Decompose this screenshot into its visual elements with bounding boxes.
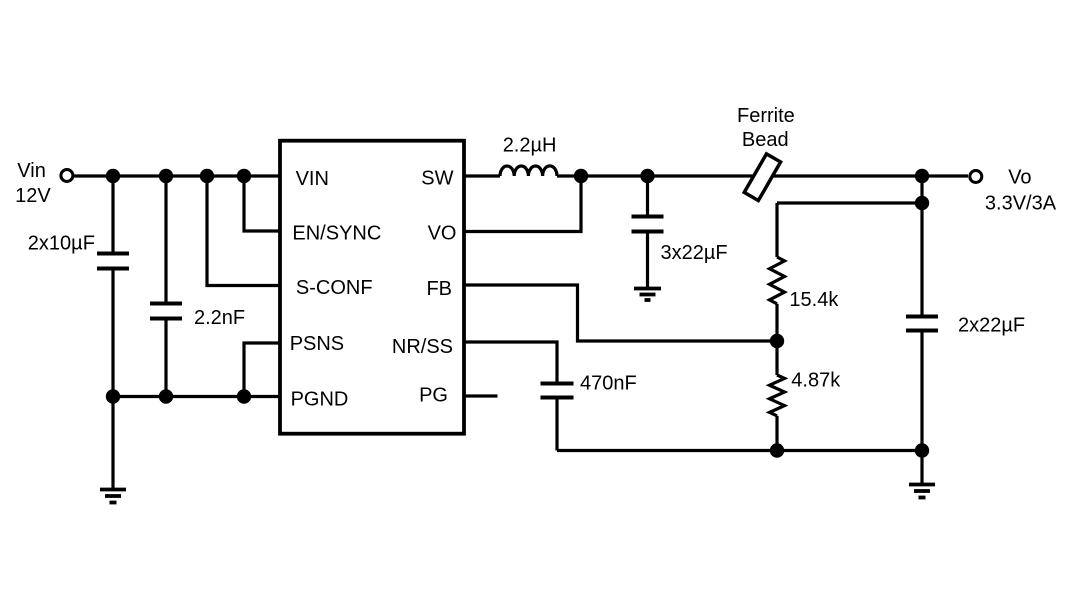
svg-text:470nF: 470nF bbox=[580, 373, 637, 395]
IC U1 bbox=[280, 141, 464, 434]
wire C2 bottom lead bbox=[164, 321, 167, 397]
svg-text:4.87k: 4.87k bbox=[791, 370, 841, 392]
wire bottom bus bbox=[557, 449, 922, 452]
capacitor 2x10uF bbox=[97, 254, 129, 269]
wire C1 bottom lead bbox=[111, 271, 114, 397]
svg-text:3x22µF: 3x22µF bbox=[661, 242, 728, 264]
wire FB bbox=[464, 285, 777, 341]
wire R1 top lead bbox=[775, 203, 778, 257]
wire PSNS bbox=[244, 343, 279, 397]
wire C1 top lead bbox=[111, 176, 114, 252]
inductor 2.2uH bbox=[500, 166, 557, 176]
capacitor 2.2nF bbox=[150, 304, 182, 319]
node feedback top junction bbox=[915, 196, 929, 210]
wire C5 top lead bbox=[920, 203, 923, 315]
wire PG stub bbox=[464, 394, 498, 397]
wire C2 top lead bbox=[164, 176, 167, 302]
capacitor 470nF bbox=[541, 384, 574, 398]
svg-text:Vo: Vo bbox=[1008, 167, 1031, 189]
svg-text:Bead: Bead bbox=[742, 129, 789, 151]
capacitor 3x22uF bbox=[632, 217, 664, 232]
wire to left ground bbox=[111, 397, 114, 490]
svg-text:15.4k: 15.4k bbox=[789, 289, 839, 311]
terminal Vin bbox=[61, 170, 73, 182]
wire C5 bottom lead bbox=[920, 333, 923, 451]
wire R2 top lead bbox=[775, 341, 778, 375]
node junction dots top rail bbox=[106, 169, 120, 183]
wire to right ground bbox=[920, 451, 923, 485]
svg-text:2.2µH: 2.2µH bbox=[503, 135, 557, 157]
ground left bbox=[100, 490, 126, 503]
wire SW to inductor bbox=[464, 174, 500, 177]
wire Vo junction drop bbox=[920, 176, 923, 203]
svg-text:PGND: PGND bbox=[291, 388, 349, 410]
wire S-CONF riser bbox=[207, 176, 279, 286]
capacitor 2x22uF bbox=[906, 317, 938, 331]
wire EN/SYNC riser bbox=[244, 176, 279, 231]
svg-text:2x22µF: 2x22µF bbox=[958, 315, 1025, 337]
wire Vin to VIN pin bbox=[74, 174, 279, 177]
svg-text:2x10µF: 2x10µF bbox=[28, 233, 95, 255]
ground middle bbox=[634, 289, 661, 301]
svg-text:PSNS: PSNS bbox=[290, 333, 344, 355]
node PGND bus junctions bbox=[106, 389, 120, 403]
resistor 15.4k bbox=[770, 257, 785, 304]
resistor 4.87k bbox=[770, 375, 785, 416]
node bottom bus junctions bbox=[770, 443, 784, 457]
svg-text:Vin: Vin bbox=[17, 160, 46, 182]
terminal Vo bbox=[970, 171, 982, 183]
svg-text:NR/SS: NR/SS bbox=[392, 336, 453, 358]
wire C3 to ground bbox=[646, 234, 649, 289]
wire y203 rail bbox=[777, 201, 922, 204]
node SW junction bbox=[574, 169, 588, 183]
wire C3 top lead bbox=[646, 176, 649, 215]
wire NR/SS to C4 bbox=[464, 342, 557, 382]
svg-text:VO: VO bbox=[428, 223, 457, 245]
svg-text:PG: PG bbox=[419, 385, 448, 407]
wire C4 bottom to bus bbox=[555, 400, 558, 451]
svg-text:2.2nF: 2.2nF bbox=[194, 307, 245, 329]
svg-text:FB: FB bbox=[426, 278, 452, 300]
svg-text:EN/SYNC: EN/SYNC bbox=[292, 223, 381, 245]
svg-text:Ferrite: Ferrite bbox=[737, 105, 795, 127]
svg-text:3.3V/3A: 3.3V/3A bbox=[985, 193, 1057, 215]
node Vo junction bbox=[915, 169, 929, 183]
svg-text:S-CONF: S-CONF bbox=[296, 277, 373, 299]
node FB divider junction bbox=[770, 334, 784, 348]
svg-text:VIN: VIN bbox=[296, 168, 329, 190]
wire PGND bus bbox=[113, 395, 279, 398]
node C3 junction bbox=[640, 169, 654, 183]
svg-text:SW: SW bbox=[421, 167, 453, 189]
wire R1 bottom lead bbox=[775, 304, 778, 341]
svg-text:12V: 12V bbox=[15, 185, 51, 207]
wire inductor to Vo terminal bbox=[557, 174, 968, 177]
ground right bbox=[909, 485, 935, 498]
wire R2 bottom lead bbox=[775, 416, 778, 451]
wire VO loop bbox=[464, 176, 581, 232]
ferrite bead FB1 bbox=[744, 154, 780, 201]
